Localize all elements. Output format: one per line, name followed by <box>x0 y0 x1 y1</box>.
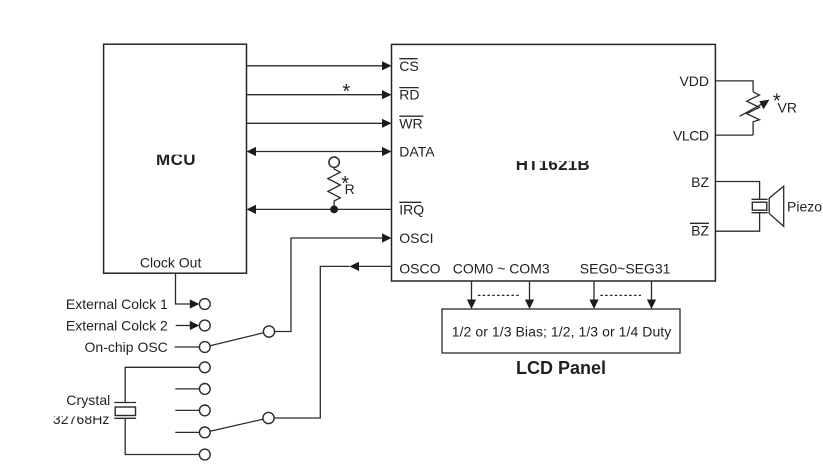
svg-text:OSCI: OSCI <box>399 230 433 246</box>
wire CS <box>247 61 392 70</box>
wire BZ to piezo <box>715 182 759 200</box>
HT1621B box U1 <box>392 44 716 281</box>
HT1621B label <box>508 152 598 175</box>
wire crystal bottom <box>125 418 199 454</box>
crystal body <box>115 407 135 416</box>
piezo disc body <box>752 202 767 210</box>
svg-text:*: * <box>342 81 350 103</box>
stub circle 5 <box>175 388 199 390</box>
terminal circle 5 <box>199 384 210 395</box>
svg-text:DATA: DATA <box>399 143 435 159</box>
svg-text:CS: CS <box>399 58 418 74</box>
svg-text:R: R <box>345 181 355 197</box>
pin VLCD <box>669 128 713 144</box>
wire VDD to VR <box>715 81 753 92</box>
wire OSCO to switch2 <box>274 262 391 418</box>
svg-text:On-chip OSC: On-chip OSC <box>85 339 168 355</box>
svg-text:LCD Panel: LCD Panel <box>516 358 606 378</box>
stub circle 7 <box>175 431 199 433</box>
resistor R zigzag <box>328 167 340 209</box>
pin IRQ <box>399 201 424 217</box>
svg-text:BZ: BZ <box>691 222 709 238</box>
stub circle 6 <box>175 409 199 411</box>
wire External Colck 2 arrow <box>176 321 200 330</box>
pin BZ-bar <box>690 222 709 238</box>
switch 2 blade <box>210 419 263 431</box>
svg-text:BZ: BZ <box>691 174 709 190</box>
MCU label <box>150 149 202 170</box>
svg-text:IRQ: IRQ <box>399 201 424 217</box>
terminal circle 4 <box>199 362 210 373</box>
svg-text:1/2 or 1/3 Bias; 1/2, 1/3 or 1: 1/2 or 1/3 Bias; 1/2, 1/3 or 1/4 Duty <box>452 324 672 340</box>
wire OSCI from switch1 <box>275 233 392 331</box>
svg-text:RD: RD <box>399 87 419 103</box>
svg-text:Clock Out: Clock Out <box>140 254 202 270</box>
pin CS <box>399 58 418 74</box>
pin RD <box>399 87 419 103</box>
terminal circle 7 <box>199 427 210 438</box>
LCD bus arrow 2 <box>525 281 534 309</box>
wire VLCD <box>715 134 753 136</box>
wire BZ-bar to piezo <box>715 213 759 232</box>
wire Clock Out to terminal 1 <box>176 274 200 309</box>
potentiometer VR zigzag <box>747 92 760 135</box>
svg-text:OSCO: OSCO <box>399 261 440 277</box>
svg-text:External Colck 1: External Colck 1 <box>66 296 168 312</box>
svg-text:WR: WR <box>399 115 422 131</box>
resistor R pull-up terminal circle <box>329 157 339 167</box>
terminal circle 8 <box>199 449 210 460</box>
crystal X1 32768Hz plates <box>114 403 136 419</box>
svg-text:Crystal: Crystal <box>66 392 110 408</box>
svg-text:VDD: VDD <box>679 73 709 89</box>
svg-text:SEG0~SEG31: SEG0~SEG31 <box>580 261 671 277</box>
switch 2 pole circle <box>263 412 274 423</box>
dashed ellipsis COM <box>478 294 521 296</box>
wire On-chip OSC stub <box>175 346 200 348</box>
LCD bus arrow 4 <box>647 281 656 309</box>
LCD bus arrow 1 <box>467 281 476 309</box>
dashed ellipsis SEG <box>600 294 641 296</box>
terminal circle 6 <box>199 405 210 416</box>
switch 1 blade <box>210 333 264 346</box>
terminal circle 3 <box>199 342 210 353</box>
svg-text:External Colck 2: External Colck 2 <box>66 318 168 334</box>
label * R <box>341 173 355 197</box>
wire DATA bidirectional <box>247 147 392 156</box>
junction dot on IRQ <box>330 206 338 214</box>
wire RD <box>247 90 392 99</box>
wire IRQ <box>247 205 392 214</box>
label * VR <box>773 91 797 116</box>
wire crystal top <box>125 367 199 402</box>
wire WR <box>247 119 392 128</box>
piezo disc plates <box>752 199 768 212</box>
terminal circle 2 <box>199 320 210 331</box>
MCU box <box>104 44 247 273</box>
svg-text:COM0 ~ COM3: COM0 ~ COM3 <box>453 261 550 277</box>
terminal circle 1 <box>199 299 210 310</box>
pin WR <box>399 115 423 131</box>
svg-text:VR: VR <box>778 99 797 115</box>
svg-text:Piezo: Piezo <box>787 198 822 214</box>
LCD bus arrow 3 <box>589 281 598 309</box>
LCD bias box <box>442 309 680 353</box>
switch 1 pole circle <box>263 326 274 337</box>
piezo cone <box>769 186 784 226</box>
label 32768Hz <box>49 410 113 427</box>
VR arrow <box>740 100 770 117</box>
